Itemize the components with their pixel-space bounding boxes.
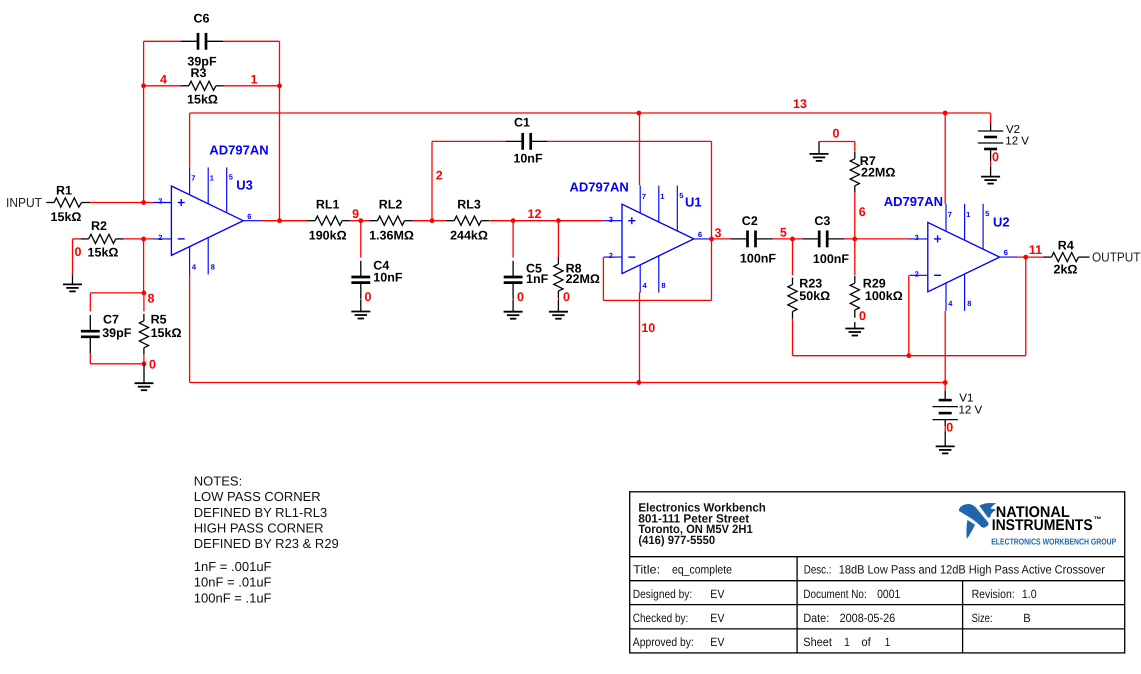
svg-text:1.0: 1.0	[1022, 587, 1037, 601]
wire U1 feedback	[603, 239, 711, 301]
svg-text:1: 1	[844, 635, 850, 649]
battery V2	[978, 123, 1029, 166]
svg-text:R4: R4	[1058, 238, 1074, 252]
wire U2 pin4 supply	[944, 311, 946, 383]
svg-text:Title:: Title:	[633, 563, 660, 577]
ground R7	[810, 142, 829, 161]
svg-text:12 V: 12 V	[1005, 136, 1029, 148]
svg-text:U3: U3	[236, 178, 253, 193]
svg-text:V1: V1	[959, 393, 973, 405]
wire C3 to node 6	[844, 238, 855, 240]
svg-text:9: 9	[352, 207, 359, 221]
svg-text:12 V: 12 V	[959, 404, 983, 416]
svg-text:Checked by:: Checked by:	[633, 611, 689, 625]
resistor RL1	[307, 198, 350, 243]
ground C5	[504, 300, 523, 319]
capacitor C4	[351, 221, 402, 300]
svg-text:ELECTRONICS WORKBENCH GROUP: ELECTRONICS WORKBENCH GROUP	[991, 537, 1116, 547]
svg-text:0: 0	[365, 290, 372, 304]
svg-text:RL1: RL1	[316, 198, 340, 212]
svg-text:R5: R5	[151, 313, 167, 327]
svg-text:0: 0	[992, 150, 999, 164]
battery V1	[933, 391, 983, 432]
junction node 12 / C5	[511, 218, 516, 223]
wire node 2 to RL3	[432, 220, 446, 222]
svg-text:15kΩ: 15kΩ	[51, 210, 82, 224]
svg-text:2: 2	[609, 251, 613, 260]
svg-text:4: 4	[160, 73, 167, 87]
junction node 0 (R5/C7)	[142, 361, 147, 366]
svg-text:B: B	[1023, 611, 1031, 625]
node 0 label (R7)	[833, 126, 840, 140]
svg-text:6: 6	[1004, 248, 1008, 257]
svg-text:0: 0	[833, 126, 840, 140]
resistor R5	[139, 293, 181, 364]
svg-text:Document No:: Document No:	[803, 587, 866, 601]
National Instruments eagle logo	[959, 503, 997, 539]
node 0 label (V1)	[946, 420, 953, 434]
svg-text:(416) 977-5550: (416) 977-5550	[638, 533, 715, 547]
junction U3 - input	[141, 237, 146, 242]
wire node12 to U1 + input	[558, 220, 603, 222]
INPUT label	[6, 195, 42, 210]
node 6 label	[859, 205, 866, 219]
junction node4/R3	[141, 83, 146, 88]
svg-text:0: 0	[563, 290, 570, 304]
svg-text:0: 0	[517, 290, 524, 304]
wire R23 bottom to feedback	[793, 321, 1026, 356]
svg-text:10nF: 10nF	[513, 151, 543, 165]
svg-text:100nF: 100nF	[740, 252, 776, 266]
resistor RL2	[369, 198, 414, 243]
wire top rail node 13	[190, 112, 991, 114]
wire U1 output node 3	[712, 238, 730, 240]
resistor RL3	[446, 198, 489, 243]
node 4 label	[160, 73, 167, 87]
svg-text:AD797AN: AD797AN	[570, 180, 629, 195]
svg-text:4: 4	[948, 299, 953, 308]
svg-text:190kΩ: 190kΩ	[309, 229, 347, 243]
node 0 label (C4)	[365, 290, 372, 304]
wire node 4 vertical (C6/R3 left leg)	[143, 41, 145, 202]
svg-text:12: 12	[528, 207, 542, 221]
svg-text:15kΩ: 15kΩ	[187, 93, 218, 107]
svg-text:DEFINED BY RL1-RL3: DEFINED BY RL1-RL3	[194, 505, 327, 520]
capacitor C6	[144, 11, 280, 68]
wire U2 output node 11	[1018, 256, 1044, 258]
ground R2	[63, 239, 82, 292]
node 1 label	[251, 73, 258, 87]
svg-text:3: 3	[609, 215, 613, 224]
svg-text:100nF = .1uF: 100nF = .1uF	[194, 590, 272, 605]
svg-text:HIGH PASS CORNER: HIGH PASS CORNER	[194, 520, 324, 535]
capacitor C7	[81, 313, 132, 354]
OUTPUT label	[1092, 250, 1141, 265]
node 12 label	[528, 207, 542, 221]
resistor R3	[144, 66, 280, 106]
svg-text:eq_complete: eq_complete	[672, 563, 732, 577]
wire bottom rail to V1	[944, 383, 946, 391]
op-amp U1 (AD797AN)	[570, 180, 713, 293]
svg-text:6: 6	[698, 230, 702, 239]
node 3 label	[715, 226, 722, 240]
svg-text:Date:: Date:	[803, 611, 829, 625]
ground C4	[351, 300, 370, 319]
ground V2	[981, 166, 1000, 183]
svg-text:AD797AN: AD797AN	[884, 194, 943, 209]
svg-text:2: 2	[436, 168, 443, 182]
junction node 11	[1023, 255, 1028, 260]
resistor R2	[73, 219, 154, 259]
junction top rail / U2 supply	[943, 111, 948, 116]
svg-text:0: 0	[859, 309, 866, 323]
junction U3 + input	[141, 200, 146, 205]
svg-text:Revision:: Revision:	[972, 587, 1015, 601]
svg-text:EV: EV	[710, 611, 724, 625]
junction node 5	[790, 237, 795, 242]
svg-text:Size:: Size:	[972, 611, 993, 625]
junction node 2	[430, 218, 435, 223]
node 13 label	[793, 97, 807, 111]
wire U2 feedback	[908, 275, 910, 355]
svg-text:10nF: 10nF	[373, 271, 403, 285]
junction node1/R3	[277, 83, 282, 88]
title block fields	[633, 563, 1105, 649]
wire RL1 to node 9	[350, 220, 361, 222]
R29 labels	[863, 276, 903, 302]
node 8 label	[148, 292, 155, 306]
wire U3 pin4 to bottom rail	[189, 274, 191, 382]
svg-text:Desc.:: Desc.:	[804, 563, 832, 577]
node 0 label (V2)	[992, 150, 999, 164]
svg-text:10: 10	[641, 321, 655, 335]
wire U3 output	[262, 220, 308, 222]
svg-text:5: 5	[679, 191, 683, 200]
svg-text:100nF: 100nF	[813, 252, 849, 266]
svg-text:7: 7	[948, 210, 952, 219]
resistor R7	[850, 142, 895, 239]
NATIONAL INSTRUMENTS wordmark	[992, 504, 1102, 534]
node 2 label	[436, 168, 443, 182]
svg-text:1nF = .001uF: 1nF = .001uF	[194, 559, 272, 574]
wire C7 bottom to node 0	[90, 353, 144, 364]
wire node 2 vertical	[431, 141, 433, 220]
svg-text:RL3: RL3	[457, 198, 481, 212]
svg-text:2kΩ: 2kΩ	[1054, 263, 1078, 277]
svg-text:244kΩ: 244kΩ	[450, 229, 488, 243]
junction node 3	[709, 237, 714, 242]
capacitor C5	[504, 221, 549, 300]
op-amp U2 (AD797AN)	[884, 194, 1018, 311]
svg-text:22MΩ: 22MΩ	[861, 166, 895, 180]
svg-text:INPUT: INPUT	[6, 195, 42, 210]
wire U1 pin4 supply	[639, 292, 641, 382]
svg-text:RL2: RL2	[379, 198, 403, 212]
resistor R8	[554, 221, 600, 300]
notes text block	[194, 474, 339, 606]
svg-text:10nF = .01uF: 10nF = .01uF	[194, 575, 272, 590]
wire bottom rail node 10	[190, 382, 946, 384]
junction node 9	[358, 218, 363, 223]
svg-text:C7: C7	[103, 313, 119, 327]
wire R1 to U3 + input	[90, 202, 154, 204]
svg-text:2008-05-26: 2008-05-26	[840, 611, 896, 625]
svg-text:2: 2	[915, 269, 919, 278]
svg-text:3: 3	[915, 233, 919, 242]
svg-text:3: 3	[158, 197, 162, 206]
svg-text:0: 0	[75, 245, 82, 259]
svg-text:Designed by:: Designed by:	[633, 587, 692, 601]
svg-text:INSTRUMENTS: INSTRUMENTS	[992, 517, 1093, 534]
title block company address	[638, 501, 765, 547]
svg-text:C2: C2	[742, 214, 758, 228]
svg-text:C3: C3	[814, 214, 830, 228]
capacitor C3	[802, 214, 849, 266]
svg-text:6: 6	[247, 212, 251, 221]
title block frame	[630, 492, 1125, 653]
ground R29	[845, 322, 864, 336]
junction node 12 / R8	[556, 218, 561, 223]
svg-text:™: ™	[1094, 515, 1102, 524]
svg-text:5: 5	[229, 173, 233, 182]
svg-text:OUTPUT: OUTPUT	[1092, 250, 1141, 265]
wire U2 pin7 supply	[944, 113, 946, 204]
node 10 label	[641, 321, 655, 335]
ground R5/C7	[135, 364, 154, 390]
svg-text:EV: EV	[710, 635, 724, 649]
svg-text:0001: 0001	[877, 587, 900, 601]
svg-text:C1: C1	[514, 116, 530, 130]
svg-text:R3: R3	[191, 66, 207, 80]
svg-text:LOW PASS CORNER: LOW PASS CORNER	[194, 489, 321, 504]
wire RL2 to node 2	[413, 220, 433, 222]
svg-text:NOTES:: NOTES:	[194, 474, 242, 489]
junction U2 feedback	[906, 353, 911, 358]
svg-text:1: 1	[966, 210, 970, 219]
junction bottom rail / V1	[943, 380, 948, 385]
svg-text:13: 13	[793, 97, 807, 111]
svg-text:8: 8	[661, 281, 665, 290]
wire C2 to node 5	[773, 238, 793, 240]
svg-text:8: 8	[967, 299, 971, 308]
wire node8 to C7	[90, 293, 144, 312]
svg-text:2: 2	[158, 233, 162, 242]
svg-text:11: 11	[1029, 243, 1042, 257]
svg-text:Sheet: Sheet	[803, 635, 832, 649]
resistor R23	[788, 239, 830, 321]
capacitor C1	[432, 116, 712, 166]
resistor R29	[850, 239, 859, 318]
wire U3 - input to node 8	[143, 239, 145, 293]
ground V1	[936, 432, 955, 454]
svg-text:15kΩ: 15kΩ	[88, 245, 119, 259]
svg-text:0: 0	[149, 357, 156, 371]
svg-text:5: 5	[985, 209, 989, 218]
wire R7 top	[819, 141, 855, 143]
svg-text:6: 6	[859, 205, 866, 219]
wire U3 pin7 to top rail	[189, 113, 191, 167]
junction node 8	[142, 291, 147, 296]
svg-text:7: 7	[642, 192, 646, 201]
svg-text:3: 3	[715, 226, 722, 240]
svg-text:4: 4	[192, 263, 197, 272]
wire node 9 to RL2	[361, 220, 370, 222]
resistor R4	[1044, 238, 1090, 276]
wire node12 to R8	[513, 220, 558, 222]
junction top rail / U1 supply	[636, 111, 641, 116]
wire top rail to V2	[990, 113, 992, 123]
junction node 6	[852, 237, 857, 242]
svg-text:U1: U1	[685, 195, 702, 210]
node 0 label (R2 ground)	[75, 245, 82, 259]
node 0 label (R5 bottom)	[149, 357, 156, 371]
node 5 label	[780, 225, 787, 239]
node 0 label (C5)	[517, 290, 524, 304]
junction bottom rail / U1	[636, 380, 641, 385]
resistor R1	[46, 184, 90, 224]
node 0 label (R8)	[563, 290, 570, 304]
svg-text:50kΩ: 50kΩ	[799, 289, 830, 303]
ground R8	[549, 300, 568, 319]
node 11 label	[1029, 243, 1042, 257]
svg-text:AD797AN: AD797AN	[209, 143, 268, 158]
svg-text:5: 5	[780, 225, 787, 239]
svg-text:39pF: 39pF	[102, 326, 132, 340]
svg-text:of: of	[861, 635, 871, 649]
node 9 label	[352, 207, 359, 221]
svg-text:1.36MΩ: 1.36MΩ	[369, 229, 414, 243]
svg-text:R2: R2	[91, 219, 107, 233]
wire C1 right leg down to node 3	[711, 141, 713, 239]
svg-text:1: 1	[885, 635, 891, 649]
svg-text:22MΩ: 22MΩ	[566, 272, 600, 286]
svg-text:1: 1	[210, 174, 214, 183]
junction U3 output node 1	[277, 218, 282, 223]
wire U1 pin7 supply	[639, 113, 641, 185]
svg-text:1: 1	[251, 73, 258, 87]
svg-text:EV: EV	[710, 587, 724, 601]
svg-text:1nF: 1nF	[526, 272, 549, 286]
wire node 11 to feedback	[1025, 257, 1027, 356]
svg-text:18dB Low Pass and 12dB High Pa: 18dB Low Pass and 12dB High Pass Active …	[839, 563, 1105, 577]
op-amp U3 (AD797AN)	[153, 143, 268, 275]
svg-text:DEFINED BY R23 & R29: DEFINED BY R23 & R29	[194, 536, 339, 551]
svg-text:0: 0	[946, 420, 953, 434]
svg-text:8: 8	[148, 292, 155, 306]
svg-text:1: 1	[660, 192, 664, 201]
wire node5 to C3	[793, 238, 803, 240]
capacitor C2	[731, 214, 777, 266]
node 0 label (R29)	[859, 309, 866, 323]
svg-text:8: 8	[211, 263, 215, 272]
svg-text:4: 4	[643, 281, 648, 290]
svg-text:100kΩ: 100kΩ	[865, 289, 903, 303]
svg-text:C6: C6	[194, 11, 210, 25]
svg-text:15kΩ: 15kΩ	[151, 326, 182, 340]
ELECTRONICS WORKBENCH GROUP label	[991, 537, 1116, 547]
svg-text:V2: V2	[1006, 124, 1020, 136]
wire node 6 to U2 + input	[855, 238, 910, 240]
svg-text:U2: U2	[993, 215, 1010, 230]
svg-text:R1: R1	[56, 184, 72, 198]
wire RL3 to node 12	[489, 220, 513, 222]
wire node 1 vertical (C6/R3 right leg)	[279, 41, 281, 220]
svg-text:Approved by:: Approved by:	[633, 635, 694, 649]
svg-text:7: 7	[191, 174, 195, 183]
